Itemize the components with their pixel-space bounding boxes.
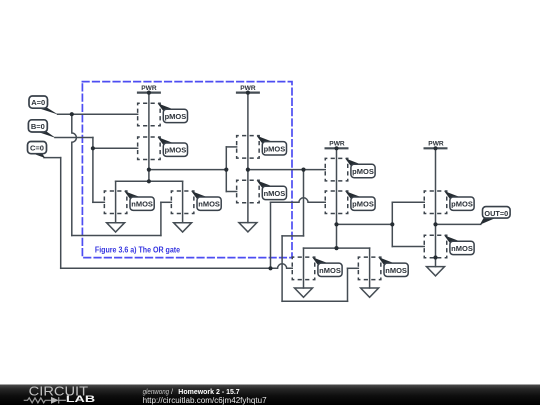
- svg-text:B=0: B=0: [31, 122, 45, 131]
- input flag C=0: [28, 142, 47, 159]
- wire net C vertical drop: [60, 158, 62, 269]
- svg-text:http://circuitlab.com/c6jm42fy: http://circuitlab.com/c6jm42fyhqtu7: [143, 396, 268, 405]
- power rail PWR col4: [424, 141, 448, 149]
- wire inverter2 output to OUT flag: [436, 223, 481, 225]
- junction PWR col3: [334, 146, 338, 150]
- transistor M1 pMOS (gate A) body: [138, 103, 161, 126]
- svg-text:pMOS: pMOS: [352, 200, 374, 209]
- output flag OUT=0: [480, 207, 510, 225]
- junction inverter1 output: [246, 168, 250, 172]
- wire nMOS2 vertical to ground: [182, 181, 184, 222]
- svg-text:pMOS: pMOS: [165, 146, 187, 155]
- wire net A stub into nMOS2 gate: [161, 201, 171, 203]
- wire inverter2 gate vertical: [391, 202, 393, 246]
- wire net A vertical drop: [72, 114, 77, 235]
- wire nMOS5 vertical to ground: [369, 248, 371, 288]
- junction inverter2 output: [433, 222, 437, 226]
- transistor M4 nMOS (gate A) body: [171, 191, 194, 214]
- label callout pMOS M11: [444, 191, 474, 210]
- ground below nMOS1: [107, 223, 125, 232]
- label callout nMOS M3: [124, 191, 154, 210]
- svg-text:Figure 3.6 a) The OR gate: Figure 3.6 a) The OR gate: [95, 246, 181, 255]
- wire nMOS4-nMOS5 drains bar: [304, 247, 370, 249]
- ground below nMOS6: [427, 267, 445, 276]
- input flag A=0: [29, 96, 58, 115]
- wire inverter1 output to pMOS4 gate: [248, 169, 325, 171]
- wire stub to nMOS6 gate: [392, 246, 424, 248]
- wire net D vertical: [281, 236, 283, 301]
- ground below nMOS3: [239, 223, 257, 232]
- label callout nMOS M12: [444, 235, 474, 254]
- wire nMOS4 vertical to ground: [303, 248, 305, 288]
- svg-text:glenwong: glenwong: [143, 387, 170, 396]
- svg-text:pMOS: pMOS: [352, 167, 374, 176]
- wire inverter1 gate vertical: [225, 147, 227, 192]
- transistor M2 pMOS (gate B) body: [138, 137, 161, 160]
- wire net D bottom run: [282, 300, 347, 302]
- junction net A: [70, 112, 74, 116]
- label callout nMOS M9: [312, 257, 342, 276]
- logo wire with resistor and diode: [24, 397, 66, 403]
- transistor M9 nMOS (gate C) body: [292, 257, 315, 280]
- junction net D tap: [301, 168, 305, 172]
- label callout nMOS M10: [378, 257, 408, 276]
- junction NOR1 output: [147, 168, 151, 172]
- svg-text:nMOS: nMOS: [264, 189, 286, 198]
- svg-text:nMOS: nMOS: [198, 200, 220, 209]
- junction NOR2 output: [334, 222, 338, 226]
- junction PWR col4: [433, 146, 437, 150]
- junction net B: [91, 146, 95, 150]
- input flag B=0: [28, 120, 55, 138]
- svg-text:A=0: A=0: [31, 98, 45, 107]
- wire net B stub to nMOS1 gate: [93, 201, 104, 203]
- transistor M10 nMOS (gate D) body: [358, 257, 381, 280]
- wire stub to nMOS3 gate: [226, 191, 236, 193]
- wire net D riser to nMOS5 gate: [347, 268, 349, 301]
- wire stub to pMOS3 gate: [226, 146, 236, 148]
- svg-text:Homework 2 - 15.7: Homework 2 - 15.7: [178, 387, 239, 396]
- junction nMOS drains bar col3: [334, 246, 338, 250]
- svg-text:nMOS: nMOS: [385, 266, 407, 275]
- wire net A horizontal to pMOS1 gate: [58, 113, 138, 115]
- junction PWR col2: [246, 91, 250, 95]
- junction net C tap: [268, 266, 272, 270]
- power rail PWR col2: [236, 85, 260, 93]
- wire net C run with hop to pMOS5 gate: [271, 198, 326, 203]
- wire stub to pMOS6 gate: [392, 201, 424, 203]
- junction PWR col1: [147, 91, 151, 95]
- svg-text:nMOS: nMOS: [319, 266, 341, 275]
- wire column3 drain chain: [336, 148, 338, 248]
- ground below nMOS5: [361, 288, 379, 297]
- wire column1 drain chain PWR to NOR1 output: [148, 93, 150, 182]
- wire nMOS1-nMOS2 drains bar: [116, 180, 183, 182]
- annotation box: Figure 3.6 dashed blue outline: [82, 82, 292, 258]
- svg-text:pMOS: pMOS: [451, 200, 473, 209]
- wire net D jog left: [282, 235, 303, 237]
- wire net A bottom run: [72, 235, 161, 237]
- transistor M5 pMOS inverter1 body: [237, 136, 260, 159]
- label callout pMOS M7: [345, 158, 375, 177]
- label callout pMOS M5: [257, 136, 287, 155]
- junction nMOS drains bar col1: [147, 179, 151, 183]
- wire net B stub to pMOS2 gate: [93, 147, 138, 149]
- power rail PWR col1: [137, 85, 161, 93]
- label callout pMOS M2: [158, 137, 188, 156]
- wire net B vertical drop: [92, 138, 94, 203]
- wire net C bottom run with hop to nMOS4 gate: [61, 264, 293, 269]
- transistor M12 nMOS inverter2 body: [424, 235, 447, 258]
- wire net C riser to pMOS5 gate: [270, 202, 272, 268]
- footer bar: [0, 385, 540, 405]
- wire net D vertical drop: [303, 170, 305, 236]
- transistor M6 nMOS inverter1 body: [237, 180, 260, 203]
- junction inverter1 gate: [224, 168, 228, 172]
- wire column2 drain chain PWR to ground: [247, 93, 249, 223]
- svg-text:C=0: C=0: [30, 144, 44, 153]
- label callout nMOS M4: [191, 191, 221, 210]
- svg-text:pMOS: pMOS: [165, 112, 187, 121]
- wire nMOS1 vertical to ground: [115, 181, 117, 222]
- transistor M8 pMOS (gate C) body: [325, 191, 348, 214]
- svg-text:nMOS: nMOS: [131, 200, 153, 209]
- wire NOR2 output to inverter2 gates: [337, 223, 393, 225]
- svg-text:OUT=0: OUT=0: [484, 209, 508, 218]
- label callout pMOS M8: [345, 191, 375, 210]
- ground below nMOS4: [295, 288, 313, 297]
- wire net B with hop over net A: [55, 137, 93, 139]
- label callout nMOS M6: [257, 180, 287, 199]
- wire net D stub into nMOS5 gate: [348, 267, 359, 269]
- junction nMOS6 source: [433, 255, 437, 259]
- wire net A riser to nMOS2 gate: [160, 202, 162, 235]
- ground below nMOS2: [174, 223, 192, 232]
- transistor M3 nMOS (gate B) body: [104, 191, 127, 214]
- label callout pMOS M1: [158, 103, 188, 122]
- wire NOR1 output to inverter gates: [149, 169, 226, 171]
- svg-text:LAB: LAB: [66, 394, 96, 404]
- transistor M7 pMOS (gate D) body: [325, 158, 348, 181]
- wire net C from flag: [44, 157, 61, 159]
- wire column4 drain chain PWR to ground: [435, 148, 437, 266]
- power rail PWR col3: [325, 141, 349, 149]
- svg-text:nMOS: nMOS: [451, 244, 473, 253]
- junction inverter2 gate: [390, 222, 394, 226]
- transistor M11 pMOS inverter2 body: [424, 191, 447, 214]
- svg-text:pMOS: pMOS: [264, 144, 286, 153]
